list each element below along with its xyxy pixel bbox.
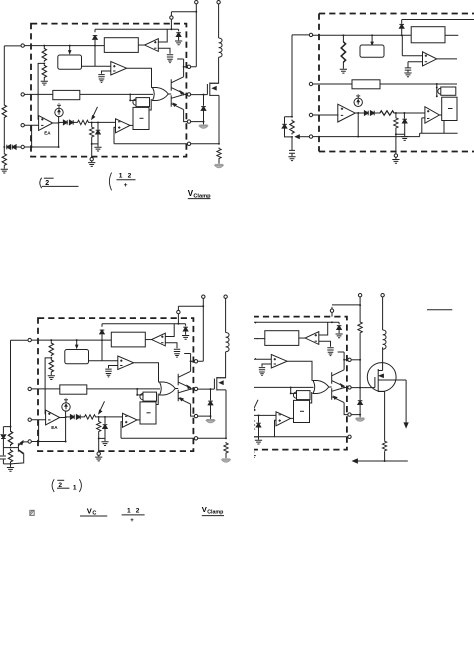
svg-text:1: 1: [119, 172, 123, 179]
svg-text:Clamp: Clamp: [207, 509, 224, 515]
svg-text:+: +: [130, 518, 134, 524]
svg-text:1: 1: [73, 484, 77, 491]
svg-text:2: 2: [128, 172, 132, 179]
svg-text:1: 1: [127, 507, 131, 514]
svg-text:+: +: [124, 182, 128, 189]
svg-text:2: 2: [136, 507, 140, 514]
svg-text:EA: EA: [44, 130, 51, 135]
